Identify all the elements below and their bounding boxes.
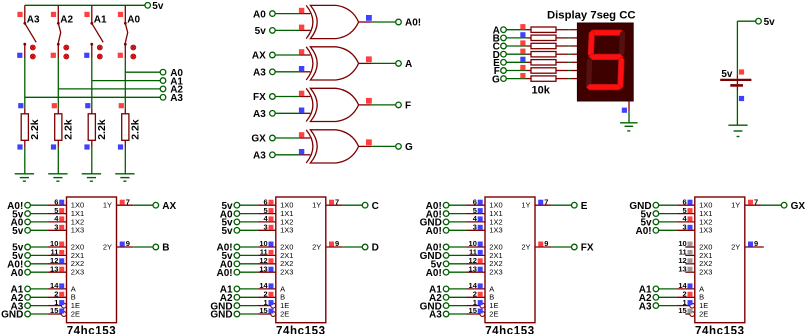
svg-text:2.2k: 2.2k <box>29 119 41 140</box>
svg-text:A0!: A0! <box>426 268 442 279</box>
pin 12 (2X2) U4 net A0 <box>220 256 276 271</box>
pin 4 (1X2) U4 net 5v <box>221 214 275 229</box>
svg-text:B: B <box>162 243 169 254</box>
resistor 10k row F <box>527 70 532 72</box>
pin 6 (1X0) U3 net A0! <box>7 197 66 212</box>
wire switch A1 down <box>91 58 93 108</box>
svg-text:15: 15 <box>259 306 267 315</box>
pin 10 (2X0) U4 net A0! <box>216 239 275 254</box>
pin 6 (1X0) U6 net GND <box>629 197 694 212</box>
wire battery top <box>737 20 755 22</box>
XOR gate U2 output A0! <box>359 15 422 29</box>
svg-text:A3: A3 <box>170 93 183 104</box>
pin 15 (2E) U5 net A3 <box>429 306 485 321</box>
XOR gate U4 <box>306 88 358 121</box>
pin 1 (1E) U3 net A3 <box>11 298 67 313</box>
svg-text:E: E <box>581 201 588 212</box>
svg-text:C: C <box>372 201 379 212</box>
svg-text:10k: 10k <box>532 85 551 97</box>
square resistor bottom A0 <box>118 144 123 149</box>
square resistor bottom A3 <box>17 144 22 149</box>
svg-text:7: 7 <box>335 197 339 206</box>
svg-text:13: 13 <box>678 264 686 273</box>
pin 4 (1X2) U5 net GND <box>420 214 485 229</box>
svg-text:F: F <box>405 101 411 112</box>
svg-text:A3: A3 <box>27 15 40 26</box>
pin 4 (1X2) U6 net 5v <box>640 214 694 229</box>
wire resistor A0 to ground <box>124 148 126 174</box>
svg-text:9: 9 <box>335 239 339 248</box>
svg-text:74hc153: 74hc153 <box>485 326 535 334</box>
pin 11 (2X1) U4 net 5v <box>221 248 275 263</box>
terminal 5v (switch rail) <box>145 3 151 9</box>
switch S3 A1 <box>84 5 107 59</box>
node square A0 <box>119 103 124 108</box>
pin 11 (2X1) U5 net GND <box>420 248 485 263</box>
wire resistor F to display <box>556 70 568 72</box>
svg-text:2Y: 2Y <box>731 242 740 251</box>
pin 11 (2X1) U6 unconnected <box>679 248 695 257</box>
XOR gate U5 output G <box>359 139 413 153</box>
svg-text:5v: 5v <box>12 226 24 237</box>
ground (display) <box>620 122 637 124</box>
svg-text:3: 3 <box>264 223 268 232</box>
svg-text:2E: 2E <box>280 309 289 318</box>
svg-text:2Y: 2Y <box>103 242 112 251</box>
wire resistor C to display <box>556 45 568 47</box>
pin 5 (1X1) U4 net A0 <box>220 206 276 221</box>
node square A3 <box>18 103 23 108</box>
wire B to resistor <box>506 37 526 39</box>
svg-text:7: 7 <box>754 197 758 206</box>
pin 7 (1Y) U5 net E <box>535 197 588 212</box>
pin 10 (2X0) U6 unconnected <box>678 239 694 248</box>
pin 13 (2X3) U6 unconnected <box>678 264 694 273</box>
svg-text:9: 9 <box>544 239 548 248</box>
XOR gate U5 <box>306 130 358 163</box>
7seg segment f (lit) <box>588 30 594 57</box>
svg-text:G: G <box>492 74 500 85</box>
wire 5v rail <box>25 4 145 6</box>
wire battery to ground <box>736 91 738 126</box>
display 7seg CC body <box>577 23 633 101</box>
svg-text:3: 3 <box>683 223 687 232</box>
pin 9 (2Y) U4 net D <box>326 239 379 254</box>
pin 2 (B) U6 net A2 <box>639 290 695 305</box>
switch S2 A2 <box>51 5 74 59</box>
svg-text:7: 7 <box>126 197 130 206</box>
resistor 2.2k R1 <box>21 108 41 147</box>
svg-text:A0!: A0! <box>426 226 442 237</box>
pin 10 (2X0) U3 net 5v <box>12 239 66 254</box>
pin 7 (1Y) U6 net GX <box>745 197 805 212</box>
svg-text:2X3: 2X3 <box>489 268 502 277</box>
svg-text:GND: GND <box>1 310 23 321</box>
terminal A3 <box>160 95 166 101</box>
svg-text:7: 7 <box>544 197 548 206</box>
7seg segment b (dark) <box>619 30 625 57</box>
pin 15 (2E) U6 unconnected <box>678 306 694 316</box>
svg-text:A0: A0 <box>253 9 266 20</box>
svg-text:A3: A3 <box>253 109 266 120</box>
resistor 10k row C <box>527 45 532 47</box>
7seg segment g (lit) <box>589 54 623 59</box>
svg-text:13: 13 <box>50 264 58 273</box>
pin 1 (1E) U6 net A3 <box>639 298 695 313</box>
svg-text:GND: GND <box>210 310 232 321</box>
XOR gate U3 <box>306 47 358 80</box>
svg-text:3: 3 <box>473 223 477 232</box>
pin 9 (2Y) U5 net FX <box>535 239 594 254</box>
svg-text:A0!: A0! <box>216 268 232 279</box>
svg-text:2X3: 2X3 <box>71 268 84 277</box>
terminal A2 <box>160 86 166 92</box>
svg-text:13: 13 <box>259 264 267 273</box>
pin 13 (2X3) U4 net A0! <box>216 264 275 279</box>
svg-text:FX: FX <box>253 92 266 103</box>
svg-text:2X3: 2X3 <box>699 268 712 277</box>
svg-text:GX: GX <box>251 134 266 145</box>
svg-text:74hc153: 74hc153 <box>276 326 326 334</box>
node square A2 <box>52 103 57 108</box>
svg-text:2.2k: 2.2k <box>96 119 108 140</box>
wire C to resistor <box>506 45 526 47</box>
ground (battery) <box>728 124 747 126</box>
ground A1 <box>82 173 101 175</box>
svg-text:2.2k: 2.2k <box>129 119 141 140</box>
svg-text:5v: 5v <box>152 1 164 12</box>
pin 15 (2E) U4 net GND <box>210 306 275 321</box>
wire E to resistor <box>506 61 526 63</box>
pin 3 (1X3) U6 net A0! <box>635 223 694 238</box>
pin 14 (A) U5 net A1 <box>429 281 485 296</box>
svg-text:FX: FX <box>581 243 594 254</box>
pin 3 (1X3) U5 net A0! <box>426 223 485 238</box>
svg-text:1X3: 1X3 <box>71 226 84 235</box>
ground A0 <box>115 173 134 175</box>
wire resistor A2 to ground <box>57 148 59 174</box>
resistor 2.2k R4 <box>122 108 142 147</box>
svg-text:5v: 5v <box>721 69 733 80</box>
wire resistor E to display <box>556 61 568 63</box>
switch S4 A0 <box>118 5 141 59</box>
resistor 2.2k R2 <box>55 108 75 147</box>
IC 74hc153 U6 <box>695 197 745 334</box>
svg-text:9: 9 <box>126 239 130 248</box>
display ground pin <box>628 101 630 111</box>
svg-text:2E: 2E <box>699 309 708 318</box>
pin 5 (1X1) U3 net 5v <box>12 206 66 221</box>
svg-text:A3: A3 <box>639 301 652 312</box>
pin 15 (2E) U3 net GND <box>1 306 66 321</box>
pin 11 (2X1) U3 net 5v <box>12 248 66 263</box>
pin 3 (1X3) U4 net 5v <box>221 223 275 238</box>
pin 6 (1X0) U4 net 5v <box>221 197 275 212</box>
svg-text:15: 15 <box>469 306 477 315</box>
pin 7 (1Y) U4 net C <box>326 197 379 212</box>
resistor 10k row D <box>527 53 532 55</box>
wire resistor B to display <box>556 37 568 39</box>
XOR gate U4 output F <box>359 98 412 112</box>
wire resistor A3 to ground <box>24 148 26 174</box>
pin 5 (1X1) U5 net A0! <box>426 206 485 221</box>
pin 4 (1X2) U3 net A0 <box>11 214 67 229</box>
pin 9 (2Y) U6 stub <box>745 239 764 248</box>
pin 2 (B) U3 net A2 <box>11 290 67 305</box>
svg-text:A3: A3 <box>429 310 442 321</box>
pin 9 (2Y) U3 net B <box>117 239 170 254</box>
svg-text:A0: A0 <box>11 268 24 279</box>
terminal A0 <box>160 69 166 75</box>
pin 13 (2X3) U5 net A0! <box>426 264 485 279</box>
pin 10 (2X0) U5 net A0! <box>426 239 485 254</box>
resistor 2.2k R3 <box>88 108 108 147</box>
7seg segment c (lit) <box>618 57 624 89</box>
pin 7 (1Y) U3 net AX <box>117 197 177 212</box>
svg-text:A0!: A0! <box>635 226 651 237</box>
IC 74hc153 U3 <box>67 197 117 334</box>
wire resistor G to display <box>556 78 568 80</box>
svg-text:GX: GX <box>791 201 805 212</box>
wire node A2 <box>58 88 160 90</box>
svg-text:2.2k: 2.2k <box>62 119 74 140</box>
svg-text:A2: A2 <box>60 15 73 26</box>
resistor 10k row E <box>527 61 532 63</box>
terminal 5v (battery) <box>756 18 762 24</box>
pin 14 (A) U3 net A1 <box>11 281 67 296</box>
IC 74hc153 U4 <box>276 197 326 334</box>
pin 13 (2X3) U3 net A0 <box>11 264 67 279</box>
wire F to resistor <box>506 70 526 72</box>
svg-text:1Y: 1Y <box>731 201 740 210</box>
ground A3 <box>15 173 34 175</box>
7seg segment a (lit) <box>590 30 624 35</box>
pin 3 (1X3) U3 net 5v <box>12 223 66 238</box>
svg-text:1Y: 1Y <box>521 201 530 210</box>
wire switch A0 down <box>124 58 126 108</box>
svg-text:D: D <box>372 243 379 254</box>
svg-text:A: A <box>405 59 412 70</box>
7seg segment e (dark) <box>586 57 592 89</box>
svg-text:3: 3 <box>54 223 58 232</box>
wire resistor A to display <box>556 29 568 31</box>
svg-text:13: 13 <box>469 264 477 273</box>
svg-text:Display 7seg CC: Display 7seg CC <box>547 10 636 22</box>
7seg segment d (lit) <box>587 84 622 89</box>
pin 12 (2X2) U3 net A0! <box>7 256 66 271</box>
pin 12 (2X2) U6 unconnected <box>678 256 694 265</box>
svg-text:1X3: 1X3 <box>280 226 293 235</box>
resistor 10k row G <box>527 78 532 80</box>
svg-text:1Y: 1Y <box>312 201 321 210</box>
svg-text:5v: 5v <box>764 17 776 28</box>
pin 2 (B) U5 net A2 <box>429 290 485 305</box>
switch S1 A3 <box>17 5 40 59</box>
svg-text:5v: 5v <box>221 226 233 237</box>
pin 6 (1X0) U5 net A0! <box>426 197 485 212</box>
svg-text:5v: 5v <box>255 26 267 37</box>
svg-text:A0: A0 <box>127 15 140 26</box>
svg-text:A1: A1 <box>94 15 107 26</box>
XOR gate U4 input wires <box>253 91 310 120</box>
terminal A1 <box>160 78 166 84</box>
wire node A0 <box>125 71 160 73</box>
svg-text:2Y: 2Y <box>521 242 530 251</box>
svg-text:A3: A3 <box>253 151 266 162</box>
XOR gate U3 input wires <box>252 49 310 78</box>
svg-text:15: 15 <box>50 306 58 315</box>
square resistor bottom A1 <box>84 144 89 149</box>
wire switch A2 down <box>57 58 59 108</box>
svg-text:9: 9 <box>754 239 758 248</box>
wire node A1 <box>92 80 161 82</box>
svg-text:A0!: A0! <box>405 18 421 29</box>
svg-text:A3: A3 <box>253 68 266 79</box>
svg-text:1X3: 1X3 <box>699 226 712 235</box>
IC 74hc153 U5 <box>485 197 535 334</box>
pin 1 (1E) U5 net GND <box>420 298 485 313</box>
XOR gate U3 output A <box>359 56 413 70</box>
wire resistor A1 to ground <box>91 148 93 174</box>
XOR gate U2 input wires <box>253 8 310 37</box>
pin 14 (A) U4 net A1 <box>220 281 276 296</box>
wire node A3 <box>25 96 161 98</box>
wire A to resistor <box>506 29 526 31</box>
pin 2 (B) U4 net A2 <box>220 290 276 305</box>
XOR gate U2 <box>306 5 358 38</box>
wire G to resistor <box>506 78 526 80</box>
svg-text:15: 15 <box>678 306 686 315</box>
wire resistor D to display <box>556 53 568 55</box>
resistor 10k row B <box>527 37 532 39</box>
svg-text:2X3: 2X3 <box>280 268 293 277</box>
svg-text:AX: AX <box>162 201 176 212</box>
pin 5 (1X1) U6 net 5v <box>640 206 694 221</box>
battery B1 5v <box>720 69 751 91</box>
svg-text:1Y: 1Y <box>103 201 112 210</box>
square resistor bottom A2 <box>51 144 56 149</box>
svg-text:74hc153: 74hc153 <box>695 326 745 334</box>
pin 1 (1E) U4 net GND <box>210 298 275 313</box>
svg-text:AX: AX <box>252 51 266 62</box>
resistor 10k row A <box>527 29 532 31</box>
svg-text:2E: 2E <box>489 309 498 318</box>
wire D to resistor <box>506 53 526 55</box>
pin 14 (A) U6 net A1 <box>639 281 695 296</box>
svg-text:1X3: 1X3 <box>489 226 502 235</box>
wire switch A3 down <box>24 58 26 108</box>
pin 12 (2X2) U5 net 5v <box>431 256 485 271</box>
svg-text:2E: 2E <box>71 309 80 318</box>
ground A2 <box>48 173 67 175</box>
node square A1 <box>85 103 90 108</box>
svg-text:G: G <box>405 142 413 153</box>
XOR gate U5 input wires <box>251 132 310 161</box>
svg-text:2Y: 2Y <box>312 242 321 251</box>
svg-text:74hc153: 74hc153 <box>67 326 117 334</box>
